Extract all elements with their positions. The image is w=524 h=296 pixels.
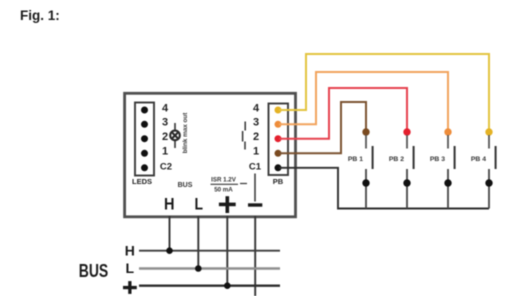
PB pin C1 black (275, 164, 282, 171)
svg-text:C1: C1 (249, 161, 262, 172)
bus line plus (139, 285, 280, 287)
wire plus drop (226, 216, 228, 286)
svg-text:3: 3 (162, 117, 168, 129)
LED lamp symbol wire (174, 123, 176, 148)
svg-text:blink max out: blink max out (182, 112, 189, 153)
wire L drop (197, 216, 199, 268)
junction H (166, 247, 173, 254)
svg-text:3: 3 (253, 117, 259, 129)
push button PB1 (348, 128, 374, 208)
svg-text:4: 4 (162, 102, 169, 114)
PB connector housing (269, 104, 289, 176)
push button PB2 (389, 128, 415, 208)
wire yellow pin4 to PB4 (279, 54, 489, 130)
C2 pin 1 (141, 150, 148, 157)
rating label ISR 1.2V / 50 mA (211, 177, 237, 194)
svg-text:2: 2 (253, 131, 259, 143)
bus label plus (123, 281, 137, 294)
svg-text:PB 4: PB 4 (471, 156, 486, 163)
C2 pin 3 (141, 121, 148, 128)
push button PB4 (471, 128, 497, 208)
svg-text:L: L (194, 195, 203, 214)
svg-text:BUS: BUS (79, 261, 109, 281)
wire brown pin1 to PB1 (279, 102, 366, 153)
svg-text:ISR 1.2V: ISR 1.2V (211, 177, 237, 184)
wire black C1 common (279, 168, 489, 209)
svg-text:PB 3: PB 3 (430, 156, 445, 163)
svg-text:PB 2: PB 2 (389, 156, 404, 163)
device box U1 (125, 93, 296, 217)
C2 pin labels 4 3 2 1 C2 (160, 102, 172, 172)
C2 pin C2 (141, 164, 148, 171)
push button PB3 (430, 128, 456, 208)
C2 pin 2 (141, 135, 148, 142)
svg-text:LEDS: LEDS (132, 177, 152, 186)
svg-text:H: H (125, 243, 135, 259)
PB pin 4 yellow (275, 107, 282, 114)
C1 to minus wire (254, 174, 256, 202)
svg-text:C2: C2 (160, 161, 172, 172)
svg-text:H: H (164, 195, 175, 214)
junction L (195, 265, 202, 272)
C2 pin 4 (141, 107, 148, 114)
arrow to C1 line (240, 183, 247, 185)
svg-text:PB 1: PB 1 (348, 156, 363, 163)
wire H drop (169, 216, 171, 251)
wire red pin2 to PB2 (279, 88, 407, 139)
PB connector C1 pin labels 4 3 2 1 C1 (249, 102, 262, 172)
bus line H (139, 250, 280, 252)
LED lamp symbol (170, 131, 180, 141)
svg-text:Fig. 1:: Fig. 1: (20, 8, 60, 23)
terminal plus label (219, 196, 236, 213)
svg-text:4: 4 (253, 102, 260, 114)
PB pin 3 orange (275, 121, 282, 128)
wire orange pin3 to PB3 (279, 72, 448, 130)
svg-text:2: 2 (162, 131, 168, 143)
svg-text:1: 1 (253, 146, 259, 158)
svg-text:1: 1 (162, 146, 168, 158)
LED connector C2 housing (135, 103, 154, 176)
junction plus (224, 282, 231, 289)
svg-text:50 mA: 50 mA (214, 187, 233, 194)
bus line L (139, 267, 280, 270)
svg-text:L: L (126, 260, 135, 276)
terminal minus label (248, 203, 262, 206)
wire minus drop (254, 216, 256, 296)
mini push-button symbol (243, 122, 246, 150)
PB pin 1 brown (275, 150, 282, 157)
svg-text:PB: PB (273, 177, 284, 186)
svg-text:BUS: BUS (178, 182, 193, 189)
PB pin 2 red (275, 135, 282, 142)
